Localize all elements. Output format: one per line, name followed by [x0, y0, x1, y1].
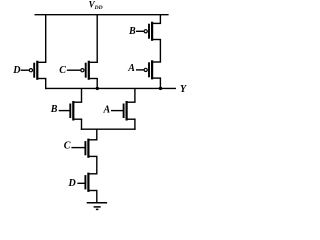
wire gate A pmos: [136, 69, 144, 71]
wire nmos B source down: [81, 119, 83, 130]
wire pmos B drain to pmos A source: [159, 40, 161, 63]
junction output node: [159, 87, 162, 90]
nmos Q_C (input C, pull-down): [85, 139, 97, 158]
wire gate A nmos: [111, 110, 123, 112]
svg-text:B: B: [128, 26, 136, 37]
wire pmos C drain down to output node: [96, 79, 98, 90]
svg-text:C: C: [64, 140, 71, 151]
wire pmos A drain to output node: [159, 78, 161, 89]
wire nmos A source down: [134, 119, 136, 130]
svg-text:B: B: [50, 104, 58, 115]
wire gate B nmos: [59, 110, 70, 112]
pmos Q_A (input A, pull-up): [144, 60, 161, 79]
wire nmos parallel bottom node: [81, 128, 136, 130]
nmos Q_B (input B, pull-down): [70, 101, 82, 121]
pmos Q_D (input D, pull-up): [29, 61, 46, 80]
junction node C drain: [96, 87, 99, 90]
wire nmos C source to nmos D drain: [96, 156, 98, 173]
wire gate C pmos: [67, 69, 81, 71]
wire VDD to pmos B source: [159, 14, 161, 23]
wire VDD to pmos D source: [45, 14, 47, 62]
svg-text:D: D: [12, 65, 20, 76]
wire pmos D drain down to output node: [45, 79, 47, 90]
wire nmos D source to ground: [96, 191, 98, 203]
svg-text:Y: Y: [180, 84, 187, 95]
svg-text:D: D: [68, 178, 76, 189]
wire gate D nmos: [77, 182, 84, 184]
wire output node horizontal: [45, 87, 176, 89]
nmos Q_D (input D, pull-down): [85, 173, 97, 192]
pmos Q_B (input B, pull-up): [144, 22, 161, 41]
svg-text:C: C: [59, 65, 66, 76]
wire gate B pmos: [136, 30, 144, 32]
wire bottom node to nmos C drain: [96, 129, 98, 140]
wire output node to nmos A drain: [134, 88, 136, 102]
svg-text:VDD: VDD: [89, 0, 103, 11]
wire gate C nmos: [71, 147, 85, 149]
svg-text:A: A: [103, 105, 111, 116]
pmos Q_C (input C, pull-up): [81, 61, 98, 80]
nmos Q_A (input A, pull-down): [124, 101, 136, 121]
wire VDD to pmos C source: [96, 14, 98, 62]
VDD rail: [35, 14, 169, 16]
ground: [87, 203, 107, 210]
wire gate D pmos: [21, 69, 30, 71]
svg-text:A: A: [127, 63, 135, 74]
wire output node to nmos B drain: [81, 88, 83, 102]
